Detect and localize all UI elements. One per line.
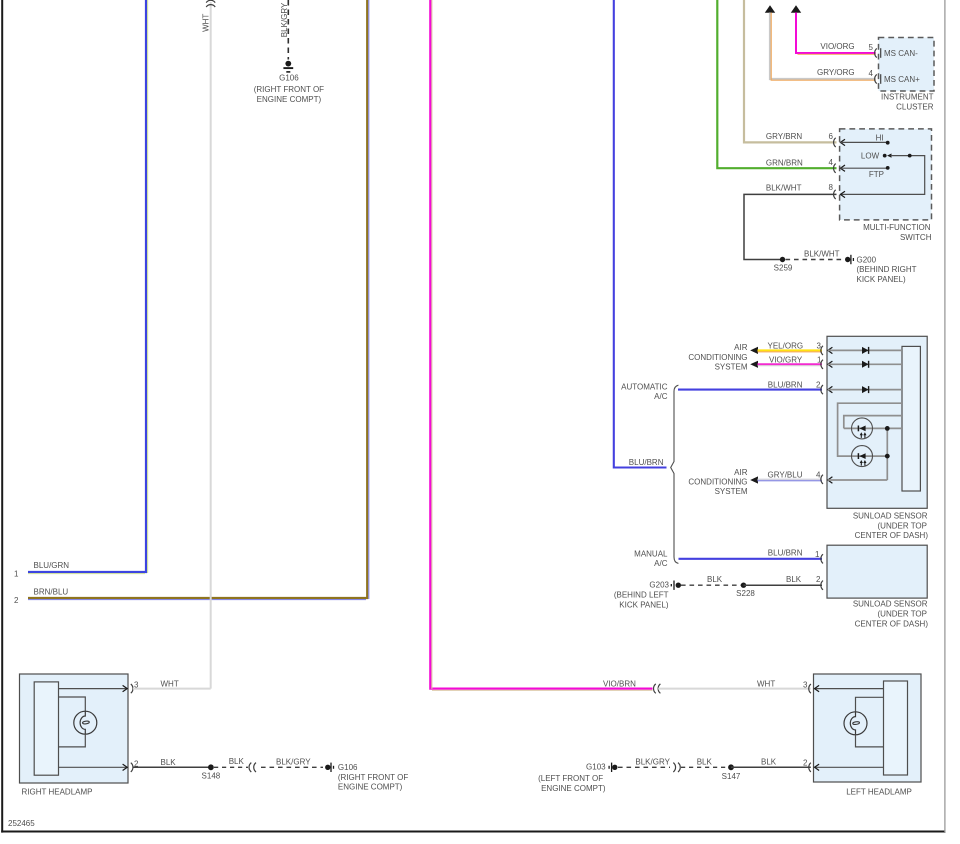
pin 4 arrow (chevron): [840, 165, 845, 171]
left headlamp bulb loop upper: [856, 697, 884, 712]
wire BLK dashed to S147: [681, 766, 728, 768]
wire BLK/GRY dashed to ground: [287, 0, 289, 60]
multi-function switch box: [840, 129, 932, 220]
wiper junction dot: [908, 154, 912, 158]
svg-text:BLK: BLK: [707, 575, 723, 584]
wire WHT to left headlamp (mid): [658, 688, 811, 690]
arrow to A/C system (YEL/ORG): [750, 347, 758, 354]
svg-text:YEL/ORG: YEL/ORG: [768, 342, 804, 351]
svg-text:KICK PANEL): KICK PANEL): [857, 275, 907, 284]
svg-text:G103: G103: [586, 763, 606, 772]
wire BLK/GRY dashed to G106: [261, 766, 323, 768]
FTP contact dot: [886, 166, 890, 170]
svg-text:1: 1: [14, 570, 19, 579]
off-page arrow (GRY/ORG): [765, 5, 775, 13]
svg-text:CONDITIONING: CONDITIONING: [688, 353, 747, 362]
pin 6 connector arc: [834, 138, 836, 147]
photodiode D2 (pin1 row): [862, 361, 869, 368]
svg-text:MANUAL: MANUAL: [634, 549, 668, 558]
svg-text:BLK: BLK: [161, 758, 177, 767]
svg-text:4: 4: [816, 470, 821, 479]
pin 4 connector arc: [834, 164, 836, 173]
wire VIO/ORG: [796, 13, 876, 55]
switch wiper arrow (points LOW): [887, 154, 892, 158]
svg-text:BLK/WHT: BLK/WHT: [766, 183, 802, 192]
internal wire to LED2: [838, 403, 902, 456]
svg-text:S147: S147: [722, 772, 741, 781]
svg-text:BLU/BRN: BLU/BRN: [768, 548, 803, 557]
svg-text:4: 4: [829, 158, 834, 167]
svg-text:GRY/BLU: GRY/BLU: [768, 470, 803, 479]
svg-text:BLK/WHT: BLK/WHT: [804, 250, 840, 259]
LOW contact dot: [883, 154, 887, 158]
svg-text:CENTER OF DASH): CENTER OF DASH): [855, 531, 929, 540]
pin 4 internal wire: [828, 479, 888, 481]
svg-text:S259: S259: [774, 264, 793, 273]
wire BLU/BRN to sunload pin2: [678, 389, 822, 391]
wire GRY/ORG: [770, 13, 876, 81]
LED2 light arrows: [861, 462, 865, 466]
splice S148: [208, 764, 214, 770]
wire BLK/WHT dashed to G200: [786, 259, 846, 261]
svg-text:LEFT HEADLAMP: LEFT HEADLAMP: [846, 787, 912, 796]
svg-text:SUNLOAD SENSOR: SUNLOAD SENSOR: [853, 511, 928, 520]
instrument cluster box: [879, 38, 935, 92]
bulb (right headlamp): [74, 711, 97, 734]
pin 2 connector arc (left headlamp): [809, 763, 811, 772]
wire YEL/ORG: [758, 350, 823, 352]
svg-text:SWITCH: SWITCH: [900, 233, 932, 242]
right headlamp bulb loop upper: [59, 697, 86, 711]
sunload sensor box (auto A/C): [827, 336, 927, 508]
pin 3 internal wire: [828, 349, 902, 351]
arrow to A/C system (VIO/GRY): [750, 361, 758, 368]
svg-text:LOW: LOW: [861, 151, 880, 160]
wire VIO/BRN vertical+horizontal: [430, 0, 652, 690]
splice S259: [780, 257, 785, 262]
svg-text:SUNLOAD SENSOR: SUNLOAD SENSOR: [853, 600, 928, 609]
svg-text:BLK: BLK: [761, 758, 777, 767]
pin 2 connector arc: [821, 385, 823, 394]
wire BLK/WHT pin8 run: [744, 194, 837, 259]
LED1 diode: [859, 426, 865, 432]
right headlamp pin3 internal wire: [59, 688, 128, 690]
svg-text:1: 1: [815, 550, 820, 559]
inline connector C1016: [673, 763, 680, 772]
ground G106 symbol (bottom): [325, 763, 333, 772]
wire BLU/GRN pin1 run: [28, 0, 148, 574]
pin 2 arrow (chevron): [828, 386, 833, 392]
wire BLK/GRY dashed from G103: [618, 766, 670, 768]
svg-text:SYSTEM: SYSTEM: [715, 363, 748, 372]
brace (A/C system alternatives): [671, 385, 679, 563]
svg-text:BRN/BLU: BRN/BLU: [34, 587, 69, 596]
svg-text:(RIGHT FRONT OF: (RIGHT FRONT OF: [338, 773, 408, 782]
right headlamp pin2 internal wire: [59, 766, 128, 768]
svg-text:(LEFT FRONT OF: (LEFT FRONT OF: [538, 774, 603, 783]
photodiode D3 (pin2 row): [862, 386, 869, 393]
svg-text:RIGHT HEADLAMP: RIGHT HEADLAMP: [22, 787, 93, 796]
pin 1 connector arc (box2): [821, 554, 823, 563]
pin 6 arrow (chevron): [840, 139, 845, 145]
svg-text:3: 3: [803, 680, 808, 689]
pin 4 terminal bar: [880, 74, 882, 84]
svg-text:AUTOMATIC: AUTOMATIC: [621, 382, 668, 391]
wire BLU/BRN main vertical: [614, 0, 667, 468]
svg-text:2: 2: [14, 596, 19, 605]
pin 3 arrow (chevron, left): [815, 685, 820, 691]
wire WHT vertical: [210, 2, 212, 689]
inline connector (VIO/BRN to WHT): [654, 684, 661, 693]
pin 5 terminal bar: [880, 48, 882, 58]
splice S147: [728, 764, 734, 770]
wire VIO/GRY: [758, 364, 823, 366]
svg-text:2: 2: [816, 575, 821, 584]
left headlamp box: [814, 674, 922, 782]
wire GRY/BRN: [744, 0, 837, 142]
svg-text:BLU/GRN: BLU/GRN: [34, 561, 70, 570]
svg-text:BLK/GRY: BLK/GRY: [276, 757, 311, 766]
svg-text:BLK/GRY: BLK/GRY: [280, 2, 289, 37]
wire WHT from right headlamp: [133, 688, 211, 690]
svg-text:BLK: BLK: [786, 575, 802, 584]
svg-text:BLK: BLK: [697, 758, 713, 767]
splice S228: [741, 583, 746, 588]
pin 3 connector arc: [821, 346, 823, 355]
left headlamp pin3 internal wire: [815, 688, 884, 690]
svg-text:4: 4: [869, 69, 874, 78]
pin 8 arrow (chevron): [840, 191, 845, 197]
wire BLK right headlamp to S148: [133, 766, 211, 768]
svg-text:GRY/ORG: GRY/ORG: [817, 68, 855, 77]
pin 2 arrow (chevron, right): [123, 764, 128, 770]
inline connector C1015: [249, 763, 256, 772]
wire BLK dashed S148 to connector: [214, 766, 248, 768]
svg-text:(RIGHT FRONT OF: (RIGHT FRONT OF: [254, 85, 324, 94]
pin 4 arrow (chevron): [828, 477, 833, 483]
svg-text:BLK/GRY: BLK/GRY: [635, 758, 670, 767]
pin 3 connector arc (left headlamp): [809, 684, 811, 693]
pin 2 arrow (chevron, left): [815, 764, 820, 770]
svg-text:WHT: WHT: [757, 680, 775, 689]
svg-text:5: 5: [869, 43, 874, 52]
right headlamp box: [20, 674, 129, 783]
LED1 row wire: [844, 427, 902, 429]
wire BLK S147 to left headlamp: [731, 766, 811, 768]
svg-text:(UNDER TOP: (UNDER TOP: [878, 521, 928, 530]
svg-text:G106: G106: [338, 763, 358, 772]
ground G106 symbol (top): [283, 61, 293, 72]
LED1 light arrows: [861, 434, 865, 438]
pin 1 arrow (chevron): [828, 361, 833, 367]
svg-text:CONDITIONING: CONDITIONING: [688, 477, 747, 486]
junction dot LED2: [885, 454, 890, 459]
svg-text:VIO/ORG: VIO/ORG: [820, 42, 854, 51]
svg-text:HI: HI: [876, 134, 884, 143]
svg-text:GRY/BRN: GRY/BRN: [766, 132, 803, 141]
svg-text:WHT: WHT: [201, 14, 210, 32]
svg-text:CENTER OF DASH): CENTER OF DASH): [855, 620, 929, 629]
pin 1 connector arc: [821, 360, 823, 369]
off-page arrow (VIO/ORG): [791, 5, 801, 13]
LED2 circle: [852, 446, 873, 467]
pin 2 connector arc (right headlamp): [131, 763, 133, 772]
svg-text:G106: G106: [279, 74, 299, 83]
svg-text:FTP: FTP: [869, 170, 884, 179]
sensor element rectangle: [902, 346, 920, 491]
pin 2 connector arc (box2): [821, 581, 823, 590]
svg-text:252465: 252465: [8, 819, 35, 828]
svg-text:S148: S148: [202, 772, 221, 781]
pin 1 internal wire: [828, 363, 902, 365]
right headlamp bulb loop lower: [59, 734, 86, 747]
svg-text:A/C: A/C: [654, 559, 668, 568]
bulb (left headlamp): [844, 712, 867, 735]
svg-text:CLUSTER: CLUSTER: [896, 102, 934, 111]
svg-text:VIO/GRY: VIO/GRY: [769, 355, 803, 364]
svg-text:WHT: WHT: [161, 680, 179, 689]
svg-text:AIR: AIR: [734, 343, 748, 352]
ground G203 symbol: [671, 581, 681, 590]
left headlamp bulb loop lower: [856, 735, 884, 747]
page border right: [944, 0, 946, 832]
svg-text:GRN/BRN: GRN/BRN: [766, 158, 803, 167]
wire GRN/BRN: [717, 0, 836, 168]
wire GRY/BLU: [758, 479, 823, 480]
left headlamp connector body: [884, 681, 908, 775]
svg-text:INSTRUMENT: INSTRUMENT: [881, 92, 934, 101]
ground G200 symbol: [845, 255, 853, 264]
svg-text:G200: G200: [857, 255, 877, 264]
LED2 row wire: [852, 455, 888, 457]
pin 4 connector arc: [875, 74, 877, 83]
svg-text:BLK: BLK: [229, 757, 245, 766]
pin 5 connector arc: [875, 48, 877, 57]
svg-text:6: 6: [829, 132, 834, 141]
pin 3 connector arc (right headlamp): [131, 684, 133, 693]
svg-text:(BEHIND RIGHT: (BEHIND RIGHT: [857, 265, 917, 274]
svg-text:8: 8: [829, 183, 834, 192]
sunload sensor box 2: [827, 545, 927, 598]
pin 3 arrow (chevron): [828, 347, 833, 353]
svg-text:VIO/BRN: VIO/BRN: [603, 679, 636, 688]
svg-text:2: 2: [803, 759, 808, 768]
junction dot LED1: [885, 426, 890, 431]
page border bottom: [1, 830, 945, 832]
switch wiper wire: [840, 156, 924, 195]
svg-text:ENGINE COMPT): ENGINE COMPT): [338, 783, 403, 792]
page border left: [1, 0, 3, 833]
svg-text:2: 2: [816, 381, 821, 390]
svg-text:MS CAN+: MS CAN+: [884, 75, 920, 84]
internal wire to LED1: [844, 416, 902, 429]
left headlamp pin2 internal wire: [815, 766, 884, 768]
switch FTP contact wire: [840, 167, 887, 169]
svg-text:ENGINE COMPT): ENGINE COMPT): [257, 95, 322, 104]
pin 2 internal wire: [828, 389, 902, 391]
svg-text:BLU/BRN: BLU/BRN: [768, 380, 803, 389]
switch HI contact wire: [840, 141, 887, 143]
svg-text:MS CAN-: MS CAN-: [884, 49, 918, 58]
svg-text:S228: S228: [736, 589, 755, 598]
LED1 circle: [852, 418, 873, 439]
right headlamp connector body: [34, 682, 58, 775]
HI contact dot: [886, 141, 890, 145]
svg-text:(UNDER TOP: (UNDER TOP: [878, 610, 928, 619]
pin 8 connector arc: [834, 190, 836, 199]
svg-text:(BEHIND LEFT: (BEHIND LEFT: [614, 590, 669, 599]
svg-text:A/C: A/C: [654, 392, 668, 401]
ground G103 symbol: [609, 763, 617, 772]
photodiode D1 (pin3 row): [862, 347, 869, 354]
svg-text:MULTI-FUNCTION: MULTI-FUNCTION: [863, 223, 931, 232]
pin 3 arrow (chevron, right): [123, 685, 128, 691]
pin 4 connector arc: [821, 475, 823, 484]
svg-text:ENGINE COMPT): ENGINE COMPT): [541, 784, 606, 793]
svg-text:G203: G203: [649, 581, 669, 590]
arrow to A/C system (GRY/BLU): [750, 476, 758, 483]
wire BRN/BLU pin2 run: [28, 0, 369, 600]
LED2 diode: [859, 453, 865, 459]
wire BLU/BRN to sunload2 pin1: [679, 558, 823, 560]
wire BLK dashed G203 to S228: [681, 584, 741, 586]
inline connector (top of WHT wire): [206, 0, 215, 7]
svg-text:BLU/BRN: BLU/BRN: [629, 458, 664, 467]
svg-text:SYSTEM: SYSTEM: [715, 487, 748, 496]
svg-text:AIR: AIR: [734, 468, 748, 477]
svg-text:KICK PANEL): KICK PANEL): [619, 600, 669, 609]
wire BLK S228 to sunload2 pin2: [744, 584, 823, 586]
LED bus vertical: [886, 428, 888, 480]
